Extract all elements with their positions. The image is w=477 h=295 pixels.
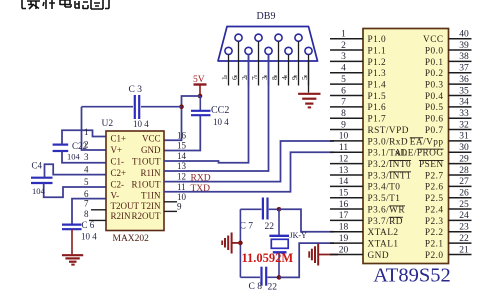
svg-text:104: 104 [67, 152, 81, 162]
svg-text:P3.2/INT0: P3.2/INT0 [368, 160, 412, 170]
svg-text:P2.1: P2.1 [425, 240, 444, 250]
svg-text:P1.4: P1.4 [368, 81, 387, 91]
svg-text:MAX202: MAX202 [113, 234, 150, 244]
capacitor C8 [240, 267, 279, 293]
svg-text:P2.2: P2.2 [425, 228, 444, 238]
svg-text:EA/Vpp: EA/Vpp [410, 137, 444, 147]
svg-text:P3.0/RxD: P3.0/RxD [368, 137, 409, 147]
svg-text:P1.6: P1.6 [368, 103, 387, 113]
junction C3/VCC [179, 104, 184, 109]
wire T1OUT to DB9 pin2 [164, 55, 249, 163]
svg-text:P0.6: P0.6 [425, 115, 444, 125]
svg-text:R2OUT: R2OUT [132, 211, 162, 221]
svg-text:T2OUT: T2OUT [111, 201, 140, 211]
svg-text:T2IN: T2IN [141, 201, 161, 211]
svg-text:40: 40 [459, 30, 469, 40]
svg-text:P2.7: P2.7 [425, 171, 444, 181]
svg-text:14: 14 [177, 151, 187, 161]
svg-text:C1+: C1+ [111, 134, 127, 144]
svg-text:21: 21 [459, 245, 469, 255]
ground below C6 [62, 255, 83, 264]
svg-text:P1.3: P1.3 [368, 69, 387, 79]
svg-text:3: 3 [84, 152, 89, 162]
svg-text:U2: U2 [102, 119, 114, 129]
U1 left pin stubs [330, 38, 363, 40]
ground left of crystal [222, 233, 240, 254]
svg-text:P0.2: P0.2 [425, 69, 444, 79]
svg-text:P3.3/INT1: P3.3/INT1 [368, 171, 412, 181]
svg-text:36: 36 [459, 75, 469, 85]
MCU U1 AT89S52 body [363, 29, 449, 264]
svg-text:20: 20 [339, 245, 349, 255]
junction at 5V node [198, 94, 203, 99]
svg-text:6: 6 [230, 76, 239, 80]
svg-text:P3.7/RD: P3.7/RD [368, 217, 403, 227]
svg-text:P2.3: P2.3 [425, 217, 444, 227]
svg-text:C 7: C 7 [240, 222, 254, 232]
svg-text:RST/VPD: RST/VPD [368, 126, 409, 136]
capacitor C7 [240, 198, 280, 233]
svg-text:3: 3 [341, 52, 346, 62]
svg-text:30: 30 [459, 143, 469, 153]
U1 right pin stubs [449, 38, 472, 40]
svg-text:18: 18 [339, 223, 349, 233]
capacitor CC2 [164, 96, 229, 151]
svg-text:R2IN: R2IN [111, 211, 132, 221]
svg-text:C 3: C 3 [129, 85, 143, 95]
svg-text:16: 16 [177, 130, 187, 140]
svg-text:4: 4 [280, 76, 289, 80]
svg-text:P2.0: P2.0 [425, 251, 444, 261]
caption text [hardware circuit diagram] cropped [22, 0, 109, 9]
svg-text:14: 14 [339, 177, 349, 187]
ground at DB9 shell [298, 61, 320, 107]
svg-text:19: 19 [339, 234, 349, 244]
svg-text:35: 35 [459, 86, 469, 96]
svg-text:31: 31 [459, 132, 469, 142]
svg-text:P1.5: P1.5 [368, 92, 387, 102]
svg-text:11: 11 [177, 182, 186, 192]
svg-text:13: 13 [177, 161, 187, 171]
svg-text:38: 38 [459, 52, 469, 62]
left rail and ground stub [239, 209, 241, 277]
U2 pin stubs pins 7,8 and 9,10 [91, 209, 106, 211]
junction crystal top [277, 207, 282, 212]
svg-text:C2+: C2+ [111, 168, 127, 178]
svg-text:22: 22 [459, 234, 469, 244]
svg-text:2: 2 [341, 41, 346, 51]
svg-text:GND: GND [368, 251, 390, 261]
svg-text:16: 16 [339, 200, 349, 210]
svg-text:C4: C4 [32, 161, 43, 171]
svg-text:17: 17 [339, 211, 349, 221]
svg-text:C 8: C 8 [249, 282, 263, 292]
svg-text:DB9: DB9 [257, 11, 276, 22]
ground at U1 GND pin [309, 244, 338, 266]
capacitor C6 [62, 199, 106, 255]
svg-text:6: 6 [341, 86, 346, 96]
svg-text:9: 9 [177, 201, 182, 211]
svg-text:P0.7: P0.7 [425, 126, 444, 136]
svg-text:1: 1 [341, 30, 346, 40]
svg-text:R1OUT: R1OUT [132, 179, 162, 189]
svg-text:P0.5: P0.5 [425, 103, 444, 113]
svg-text:P3.4/T0: P3.4/T0 [368, 183, 401, 193]
svg-text:P1.2: P1.2 [368, 58, 387, 68]
svg-text:C 6: C 6 [82, 220, 95, 230]
svg-text:C1-: C1- [111, 156, 125, 166]
capacitor C4 [31, 161, 106, 198]
svg-text:P1.0: P1.0 [368, 35, 387, 45]
svg-text:P2.5: P2.5 [425, 194, 444, 204]
svg-text:P2.6: P2.6 [425, 183, 444, 193]
svg-text:4: 4 [84, 165, 89, 175]
svg-text:P3.6/WR: P3.6/WR [368, 205, 406, 215]
svg-text:2: 2 [84, 140, 89, 150]
svg-text:P0.0: P0.0 [425, 46, 444, 56]
wire T1IN to P3.1 TxD [164, 152, 334, 192]
svg-text:7: 7 [84, 199, 89, 209]
svg-text:7: 7 [250, 76, 259, 80]
svg-text:8: 8 [84, 209, 89, 219]
svg-text:P0.3: P0.3 [425, 81, 444, 91]
svg-text:JK-Y: JK-Y [290, 231, 308, 240]
svg-text:T1OUT: T1OUT [132, 156, 161, 166]
capacitor C3 [82, 85, 182, 129]
svg-text:104: 104 [32, 186, 46, 196]
svg-text:6: 6 [84, 189, 89, 199]
svg-text:10 4: 10 4 [133, 119, 149, 129]
junction left rail [238, 241, 243, 246]
svg-text:P2.4: P2.4 [425, 205, 444, 215]
svg-text:8: 8 [270, 76, 279, 80]
svg-text:23: 23 [459, 223, 469, 233]
capacitor C22 [53, 130, 106, 163]
svg-text:ALE/PROG: ALE/PROG [394, 149, 443, 159]
svg-text:26: 26 [459, 188, 469, 198]
op-amp/driver U2 MAX202 body [106, 131, 164, 231]
svg-text:12: 12 [339, 154, 349, 164]
svg-text:12: 12 [177, 172, 186, 182]
svg-text:C2-: C2- [111, 179, 125, 189]
svg-text:33: 33 [459, 109, 469, 119]
wire to XTAL2 pin18 [279, 209, 334, 231]
svg-text:P0.1: P0.1 [425, 58, 444, 68]
svg-text:10 4: 10 4 [213, 117, 229, 127]
svg-text:CC2: CC2 [211, 105, 229, 116]
svg-text:AT89S52: AT89S52 [373, 265, 450, 287]
svg-text:27: 27 [459, 177, 469, 187]
DB9 pin stubs and pin numbers [228, 55, 230, 86]
svg-text:VCC: VCC [423, 35, 443, 45]
svg-text:1: 1 [220, 76, 229, 80]
svg-text:8: 8 [341, 109, 346, 119]
svg-text:34: 34 [459, 98, 469, 108]
svg-text:11: 11 [339, 143, 348, 153]
wire to XTAL1 pin19 [279, 243, 334, 277]
svg-text:GND: GND [141, 145, 161, 155]
svg-text:V+: V+ [111, 145, 123, 155]
svg-text:1: 1 [84, 127, 89, 137]
svg-text:4: 4 [341, 64, 346, 74]
svg-text:5: 5 [341, 75, 346, 85]
svg-text:5: 5 [300, 76, 309, 80]
svg-text:T1IN: T1IN [141, 190, 161, 200]
svg-text:22: 22 [265, 222, 275, 232]
svg-text:24: 24 [459, 211, 469, 221]
svg-text:15: 15 [339, 188, 349, 198]
crystal Y JK-Y [269, 209, 307, 277]
svg-text:11.0592M: 11.0592M [242, 251, 294, 265]
svg-text:32: 32 [459, 120, 469, 130]
svg-text:10 4: 10 4 [81, 232, 97, 242]
svg-text:15: 15 [177, 141, 187, 151]
wire R1IN to DB9 pin3 [164, 55, 269, 172]
svg-text:37: 37 [459, 64, 469, 74]
wire R1OUT to P3.0 RxD [164, 141, 334, 182]
junction crystal bottom [277, 275, 282, 280]
svg-text:39: 39 [459, 41, 469, 51]
svg-text:P0.4: P0.4 [425, 92, 444, 102]
svg-text:VCC: VCC [142, 134, 161, 144]
svg-text:25: 25 [459, 200, 469, 210]
svg-text:28: 28 [459, 166, 469, 176]
svg-text:XTAL1: XTAL1 [368, 240, 399, 250]
svg-text:10: 10 [339, 132, 349, 142]
svg-text:XTAL2: XTAL2 [368, 228, 399, 238]
svg-text:13: 13 [339, 166, 349, 176]
wire C3 to U2 V+ pin2 [82, 107, 107, 150]
svg-text:V-: V- [111, 190, 120, 200]
svg-text:PSEN: PSEN [419, 160, 444, 170]
wire 5V to U2 VCC [164, 96, 200, 140]
svg-text:9: 9 [341, 120, 346, 130]
svg-text:22: 22 [268, 283, 278, 293]
svg-text:P1.1: P1.1 [368, 46, 387, 56]
power 5V [193, 75, 207, 96]
svg-text:P3.5/T1: P3.5/T1 [368, 194, 401, 204]
svg-text:5: 5 [84, 177, 89, 187]
svg-text:7: 7 [341, 98, 346, 108]
svg-text:P1.7: P1.7 [368, 115, 387, 125]
svg-text:R1IN: R1IN [141, 168, 162, 178]
svg-text:9: 9 [290, 76, 299, 80]
svg-text:10: 10 [177, 192, 187, 202]
svg-text:29: 29 [459, 154, 469, 164]
